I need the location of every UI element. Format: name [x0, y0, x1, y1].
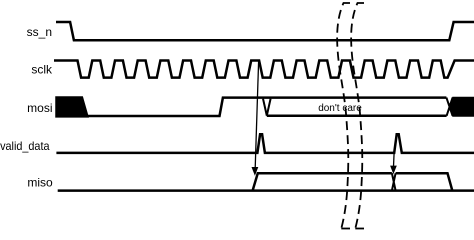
wire mosi bus-open V at x=263 [263, 99, 271, 116]
svg-text:mosi: mosi [27, 101, 52, 115]
wire miso low line and bus bottom (continuous) [58, 189, 474, 192]
label mosi [27, 101, 52, 115]
wire mosi closing X at x=449 [446, 98, 452, 116]
label ss_n [27, 25, 52, 39]
wire miso X transition at x=393 [392, 173, 396, 190]
wire ss_n waveform [56, 22, 474, 40]
svg-text:miso: miso [27, 176, 53, 190]
time break symbol: left dashed curve [337, 3, 350, 229]
time break symbol: right dashed curve [351, 3, 364, 229]
label sclk [31, 63, 53, 77]
wire mosi don't-care bus bottom line [267, 115, 447, 118]
mosi black data block at start [56, 97, 88, 117]
wire miso bus top line after X and closing diagonal [396, 173, 453, 190]
arrow from valid_data pulse down to miso X [390, 153, 397, 174]
svg-text:don't care: don't care [318, 103, 362, 114]
wire mosi low then high line [88, 98, 446, 116]
wire valid_data low line with two pulses [56, 134, 474, 153]
arrow from sclk falling edge down to miso transition [252, 62, 259, 176]
wire miso bus-open diagonal at x=253 [253, 173, 392, 190]
label don't care [318, 103, 362, 114]
svg-text:sclk: sclk [31, 63, 53, 77]
label valid_data [0, 139, 50, 153]
label miso [27, 176, 53, 190]
svg-text:ss_n: ss_n [27, 25, 52, 39]
wire sclk clock waveform [54, 61, 474, 78]
svg-text:valid_data: valid_data [0, 139, 50, 153]
mosi black data block at right edge [450, 98, 474, 116]
